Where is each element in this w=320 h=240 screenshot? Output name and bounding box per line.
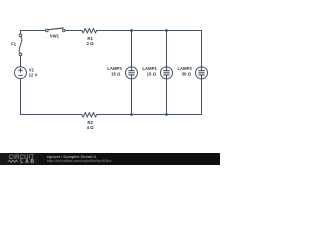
svg-text:15 Ω: 15 Ω [147,71,157,76]
svg-text:F1: F1 [11,42,17,47]
svg-text:30 Ω: 30 Ω [182,71,192,76]
svg-text:2 Ω: 2 Ω [87,41,95,46]
svg-text:12 V: 12 V [29,73,38,78]
svg-text:4 Ω: 4 Ω [87,125,95,130]
svg-text:LAB: LAB [20,159,36,165]
svg-text:SW1: SW1 [50,33,60,38]
svg-text:15 Ω: 15 Ω [111,71,121,76]
svg-text:http://circuitlab.com/cq4w8ht9: http://circuitlab.com/cq4w8ht9rjx9f3kz [47,158,112,163]
